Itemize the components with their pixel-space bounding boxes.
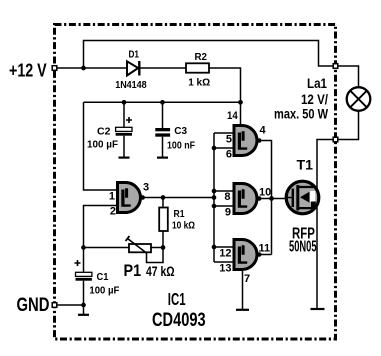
svg-text:3: 3 (143, 182, 149, 194)
svg-text:D1: D1 (129, 50, 140, 61)
svg-text:R1: R1 (174, 209, 185, 220)
svg-text:5: 5 (226, 134, 232, 146)
svg-text:100 µF: 100 µF (87, 140, 118, 151)
svg-text:C1: C1 (97, 272, 109, 283)
svg-text:1N4148: 1N4148 (115, 80, 147, 91)
svg-text:7: 7 (244, 273, 250, 285)
svg-text:13: 13 (219, 263, 231, 275)
svg-text:12 V/: 12 V/ (301, 92, 328, 107)
svg-text:11: 11 (259, 243, 271, 255)
svg-text:14: 14 (227, 110, 238, 122)
svg-text:10 kΩ: 10 kΩ (172, 221, 195, 232)
svg-text:9: 9 (225, 207, 231, 219)
svg-text:50N05: 50N05 (289, 239, 317, 256)
svg-text:100 nF: 100 nF (167, 141, 195, 152)
svg-text:2: 2 (110, 206, 116, 218)
svg-text:IC1: IC1 (168, 289, 186, 309)
svg-text:10: 10 (259, 187, 271, 199)
svg-text:8: 8 (224, 191, 230, 203)
svg-text:+12 V: +12 V (9, 61, 47, 81)
svg-text:GND: GND (17, 295, 50, 316)
svg-text:max. 50 W: max. 50 W (274, 107, 328, 122)
svg-text:6: 6 (226, 149, 232, 161)
svg-text:T1: T1 (297, 158, 314, 173)
svg-text:1: 1 (109, 191, 115, 203)
svg-text:4: 4 (260, 125, 267, 137)
svg-text:12: 12 (219, 248, 231, 260)
svg-text:C3: C3 (174, 126, 187, 137)
svg-text:R2: R2 (195, 52, 208, 63)
svg-text:47 kΩ: 47 kΩ (146, 264, 175, 279)
svg-text:La1: La1 (307, 76, 327, 91)
svg-text:CD4093: CD4093 (152, 310, 206, 331)
svg-text:1 kΩ: 1 kΩ (188, 77, 210, 88)
svg-text:100 µF: 100 µF (89, 286, 119, 297)
svg-text:C2: C2 (97, 126, 111, 137)
svg-text:P1: P1 (124, 261, 142, 280)
